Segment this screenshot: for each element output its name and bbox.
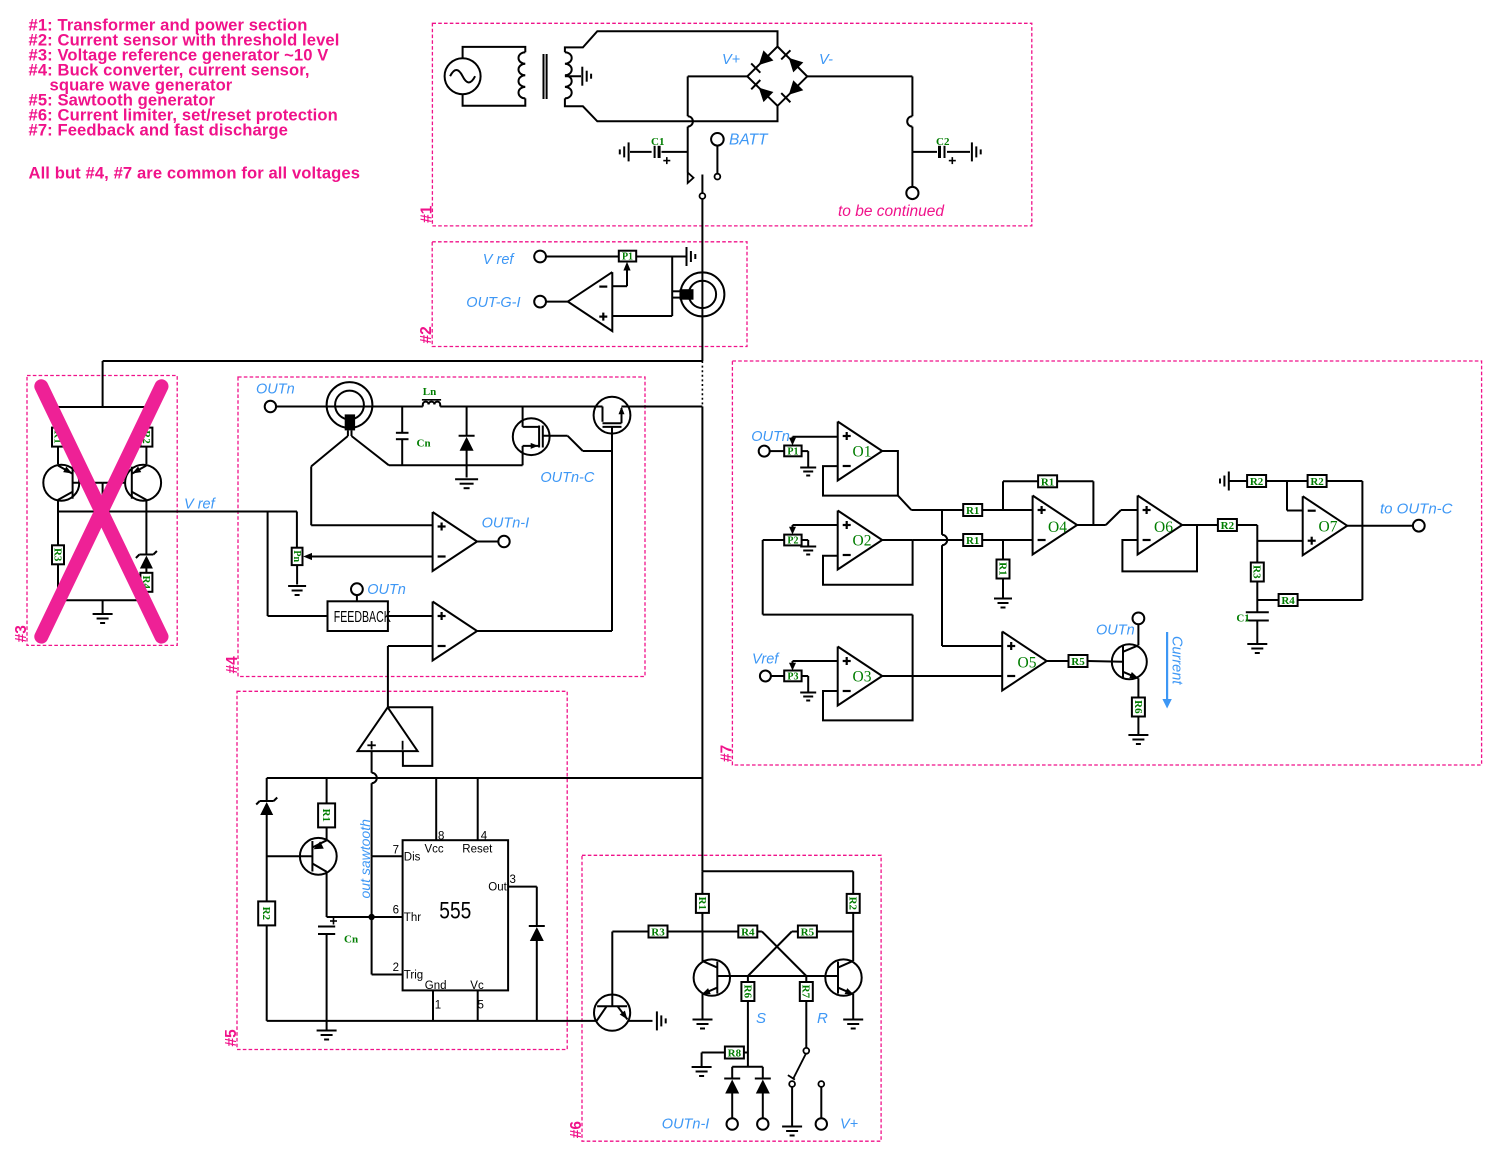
svg-text:R7: R7	[800, 985, 812, 999]
svg-text:R1: R1	[996, 562, 1008, 575]
svg-text:OUTn-C: OUTn-C	[540, 470, 595, 486]
svg-text:OUTn: OUTn	[256, 382, 295, 398]
svg-text:#6: #6	[568, 1121, 585, 1139]
svg-text:Gnd: Gnd	[425, 980, 447, 992]
svg-text:Current: Current	[1169, 636, 1185, 685]
svg-text:O1: O1	[853, 444, 872, 461]
svg-text:P1: P1	[787, 447, 798, 458]
svg-text:to be continued: to be continued	[838, 203, 945, 220]
svg-text:#7: Feedback and fast discharg: #7: Feedback and fast discharge	[29, 121, 288, 140]
svg-text:Pn: Pn	[291, 550, 302, 562]
svg-text:R6: R6	[741, 985, 753, 999]
svg-text:R2: R2	[847, 897, 859, 911]
svg-text:R8: R8	[728, 1047, 742, 1059]
svg-text:OUTn: OUTn	[367, 582, 406, 598]
svg-text:OUTn-I: OUTn-I	[482, 516, 530, 532]
svg-text:#3: #3	[13, 625, 30, 643]
svg-text:555: 555	[439, 898, 471, 925]
svg-text:OUT-G-I: OUT-G-I	[466, 295, 520, 311]
svg-text:R2: R2	[1221, 520, 1235, 532]
svg-text:#2: #2	[418, 326, 435, 343]
svg-text:R1: R1	[966, 505, 979, 517]
svg-text:V ref: V ref	[184, 497, 217, 513]
svg-text:Out: Out	[488, 881, 507, 893]
svg-text:C1: C1	[1236, 613, 1249, 625]
svg-text:Vcc: Vcc	[425, 843, 444, 855]
svg-text:#5: #5	[223, 1029, 240, 1047]
svg-text:R4: R4	[741, 926, 755, 938]
svg-text:8: 8	[438, 831, 444, 843]
svg-text:O3: O3	[853, 669, 872, 686]
svg-text:P3: P3	[787, 672, 798, 683]
svg-text:Trig: Trig	[404, 969, 423, 981]
svg-text:to OUTn-C: to OUTn-C	[1380, 501, 1453, 518]
svg-text:All but #4, #7 are common for: All but #4, #7 are common for all voltag…	[29, 164, 361, 183]
svg-text:3: 3	[510, 874, 516, 886]
svg-text:Ln: Ln	[423, 386, 436, 398]
svg-text:2: 2	[393, 962, 399, 974]
svg-text:S: S	[756, 1010, 766, 1027]
svg-text:R5: R5	[801, 926, 815, 938]
svg-text:4: 4	[481, 831, 488, 843]
svg-text:Dis: Dis	[404, 852, 421, 864]
svg-text:R2: R2	[1310, 476, 1324, 488]
svg-text:7: 7	[393, 844, 399, 856]
svg-text:P2: P2	[787, 536, 798, 547]
svg-text:R: R	[817, 1010, 828, 1027]
svg-text:Vc: Vc	[470, 980, 484, 992]
svg-text:O7: O7	[1319, 519, 1338, 536]
svg-text:R4: R4	[1281, 595, 1295, 607]
svg-text:R3: R3	[51, 548, 63, 562]
svg-text:O4: O4	[1048, 519, 1067, 536]
svg-text:Cn: Cn	[344, 934, 358, 946]
svg-text:O6: O6	[1154, 519, 1173, 536]
svg-text:OUTn: OUTn	[751, 429, 790, 445]
svg-text:FEEDBACK: FEEDBACK	[334, 609, 391, 626]
svg-text:1: 1	[435, 1000, 441, 1012]
svg-text:C1: C1	[651, 136, 664, 148]
svg-text:R3: R3	[651, 926, 665, 938]
svg-text:P1: P1	[622, 252, 633, 263]
svg-text:R1: R1	[966, 535, 979, 547]
svg-text:#4: #4	[224, 656, 241, 674]
svg-text:Reset: Reset	[462, 843, 493, 855]
svg-text:R1: R1	[1041, 476, 1054, 488]
svg-text:C2: C2	[936, 136, 950, 148]
svg-text:Vref: Vref	[752, 651, 780, 667]
svg-text:OUTn: OUTn	[1096, 623, 1135, 639]
svg-text:R1: R1	[320, 809, 332, 822]
svg-text:V+: V+	[840, 1117, 858, 1133]
svg-text:R3: R3	[1251, 565, 1263, 579]
svg-text:O2: O2	[853, 533, 872, 550]
svg-text:Cn: Cn	[417, 438, 431, 450]
svg-text:V ref: V ref	[483, 252, 516, 268]
svg-text:R5: R5	[1071, 656, 1085, 668]
svg-text:V+: V+	[722, 52, 740, 68]
svg-text:#7: #7	[718, 745, 735, 762]
svg-text:O5: O5	[1018, 655, 1037, 672]
svg-text:out sawtooth: out sawtooth	[357, 819, 373, 899]
svg-text:#1: #1	[418, 205, 435, 223]
svg-text:V-: V-	[819, 52, 833, 68]
svg-text:R2: R2	[260, 907, 272, 921]
svg-text:6: 6	[393, 905, 399, 917]
svg-text:OUTn-I: OUTn-I	[662, 1117, 710, 1133]
svg-text:BATT: BATT	[729, 132, 769, 149]
svg-text:R2: R2	[1250, 476, 1264, 488]
svg-text:R6: R6	[1132, 700, 1144, 714]
svg-text:Thr: Thr	[404, 912, 421, 924]
svg-text:R1: R1	[696, 897, 708, 910]
